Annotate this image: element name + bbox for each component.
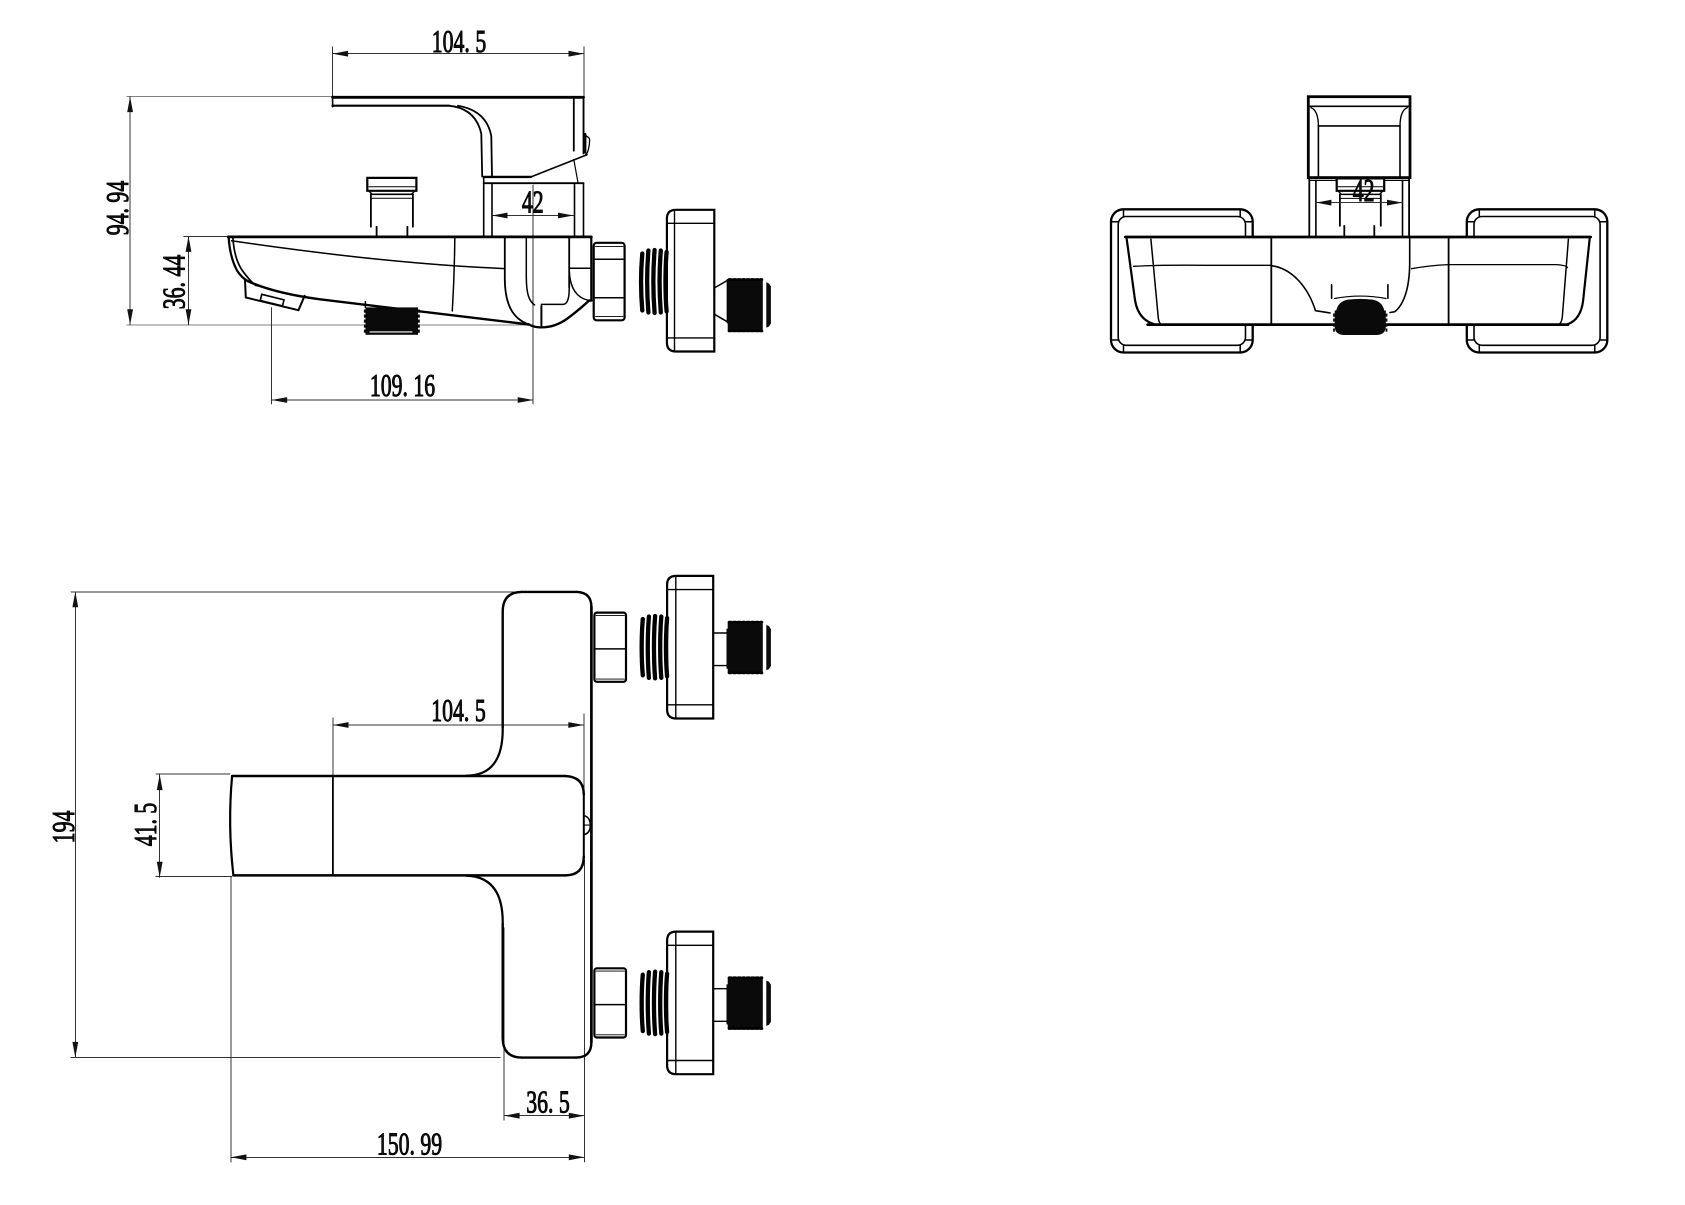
dim 104.5 extension lines (side view): [127, 47, 584, 404]
dim line 42 side: [492, 215, 574, 217]
top view: spout outlet bump: [584, 816, 591, 835]
cartridge cap (side): [367, 178, 416, 191]
svg-text:104. 5: 104. 5: [431, 693, 485, 728]
ext 36.44 top: [184, 236, 230, 238]
collar (top view): [713, 633, 727, 666]
hex nut (side): [594, 243, 625, 320]
nipple (black, top view): [728, 622, 763, 673]
svg-text:41. 5: 41. 5: [128, 803, 163, 847]
dim line 36.44: [188, 236, 190, 324]
front bar shoulder lines: [1134, 265, 1271, 266]
hex nut (top view): [594, 613, 626, 682]
cartridge neck (side): [371, 194, 413, 227]
faucet body top line (side): [228, 235, 591, 238]
handle lever (side): [333, 96, 584, 99]
front outlet collar arc: [1335, 296, 1386, 298]
top view dims: extension lines: [71, 592, 584, 1162]
body front face line: [452, 237, 455, 311]
front right wall plate: [1467, 209, 1608, 352]
nipple (black, top view): [728, 978, 763, 1029]
body bottom right outline: [529, 301, 591, 328]
eccentric plate (top view): [667, 576, 713, 719]
svg-text:104. 5: 104. 5: [432, 24, 486, 59]
hose recess walls: [540, 306, 542, 325]
flange horizontal line: [569, 267, 591, 269]
inner channel second wall: [526, 237, 534, 305]
threaded pipe (top view): [642, 616, 667, 678]
front body bar: [1125, 236, 1590, 239]
arrows side view: [333, 51, 349, 57]
front outlet recess walls: [1332, 285, 1388, 299]
shower outlet thread (black, side): [364, 302, 366, 308]
dim line 94.94: [129, 97, 131, 325]
threaded connector (side): [641, 250, 666, 313]
ext 109.16 left: [271, 308, 273, 405]
front bar section verticals: [1270, 237, 1272, 325]
svg-text:42: 42: [522, 184, 544, 219]
collar (top view): [713, 989, 727, 1022]
handle back edge (side): [573, 97, 575, 150]
svg-text:36. 5: 36. 5: [526, 1084, 570, 1119]
hex nut (top view): [594, 968, 626, 1037]
front center bulge edges: [1272, 266, 1330, 313]
front escutcheon: [1309, 178, 1409, 237]
flange left edge: [568, 237, 570, 288]
aerator piece under spout: [245, 281, 305, 311]
spout nose inner curve: [233, 238, 252, 283]
dim line 109.16: [272, 399, 534, 401]
spout underside slant: [248, 281, 530, 325]
handle hook curl: [584, 134, 586, 153]
U channel left wall: [505, 237, 529, 325]
flange right edge: [590, 237, 592, 301]
eccentric plate (side): [667, 210, 714, 352]
ref line top (94.94 top): [127, 96, 333, 98]
wall nipple (black, side): [728, 279, 771, 331]
spout nose outer curve: [229, 238, 248, 281]
svg-text:194: 194: [46, 810, 81, 843]
svg-text:36. 44: 36. 44: [156, 255, 191, 310]
collar between plate and nipple (side): [714, 280, 727, 321]
cartridge stem (side): [377, 227, 408, 237]
front cartridge: [1337, 178, 1385, 190]
svg-text:42: 42: [1353, 173, 1375, 208]
ext line 42/109.16 center: [532, 185, 534, 404]
threaded pipe (top view): [642, 972, 667, 1034]
front view handle: [1308, 97, 1410, 178]
svg-text:109. 16: 109. 16: [370, 368, 435, 403]
dim 42 front: [1316, 202, 1403, 204]
ref line bottom (94.94 bottom): [127, 324, 533, 326]
top view: handle/spout bar (horizontal): [232, 775, 565, 778]
front outlet thread (black): [1335, 299, 1386, 335]
dim line 104.5 side: [333, 53, 584, 55]
inner top slant of body: [232, 241, 505, 269]
flange corner arc: [569, 271, 588, 300]
valve body top (side): [484, 176, 531, 178]
svg-text:150. 99: 150. 99: [377, 1126, 442, 1161]
front left wall plate: [1111, 209, 1253, 352]
svg-text:94. 94: 94. 94: [100, 181, 135, 236]
top view: wall-side body bar (vertical): [522, 591, 577, 593]
front body bar mask over plates: [1125, 236, 1592, 326]
eccentric plate (top view): [667, 932, 713, 1075]
